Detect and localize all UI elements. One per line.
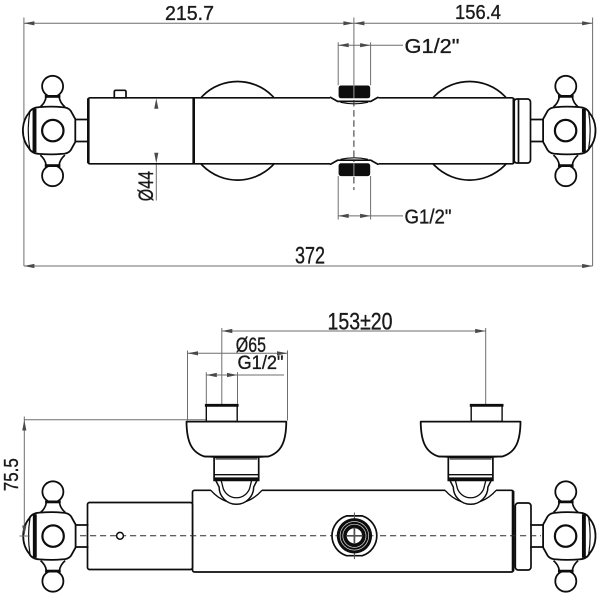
O44 dimension line vertical [155,98,157,200]
right valve circle O65 (top view) [420,82,519,181]
section line [192,99,195,164]
153 dim extension line left [221,328,223,404]
left handle (front view) [23,481,88,591]
dim O65 [188,352,288,354]
main body (top view) [88,98,514,164]
75.5 horizontal extension line [24,419,205,421]
dim 156.4 line [354,22,593,24]
escutcheon center cross [346,528,362,544]
G1/2 nut bottom (black) [339,163,371,176]
thick right edge of front body [512,491,515,571]
dim 215.7 line [24,22,354,24]
dashed centerline front view [80,535,541,537]
svg-text:G1/2": G1/2" [405,35,460,58]
mask body edge under bosses [330,96,379,99]
extension line right (372 / 156.4 dims) [592,18,594,267]
svg-text:75.5: 75.5 [1,458,23,491]
G1/2 (front view) extension lines [205,372,207,404]
thick right body edge [512,99,515,164]
dashed centerline through unions [353,100,355,162]
escutcheon outer ring with flats [332,516,377,556]
left handle (top view) [23,76,88,186]
svg-text:153±20: 153±20 [328,309,393,336]
svg-text:G1/2": G1/2" [405,206,452,229]
thick left body edge [87,99,90,164]
boss over bottom nut [331,160,378,164]
escutcheon crosshair under [335,513,373,560]
right wall union fitting [471,406,502,422]
75.5 dimension vertical line [23,417,25,537]
O65 extension lines [187,351,189,421]
body left section [88,503,193,570]
left outlet assembly [187,422,287,505]
escutcheon black annulus [337,518,372,553]
extension line left (372 / 215.7 dims) [23,18,25,267]
svg-text:G1/2": G1/2" [238,353,284,374]
button on body (top view) [114,90,126,98]
G1/2 nut top (black) [339,86,371,99]
svg-text:372: 372 [295,243,325,270]
dim 153+-20 [222,330,486,332]
svg-text:156.4: 156.4 [455,1,501,24]
svg-text:Ø44: Ø44 [134,171,158,201]
svg-text:215.7: 215.7 [165,2,214,25]
body end cap right (top view) [514,99,531,163]
body end cap right [515,503,531,570]
left wall union fitting [206,406,237,422]
screw on left section [117,532,124,539]
G1/2 bottom extension lines [337,176,339,220]
right handle (top view) [530,76,595,186]
boss under top nut [331,97,378,101]
escutcheon inner white rings [343,524,366,547]
dim G1/2 front [206,374,284,376]
G1/2 top extension lines [337,42,339,85]
dim G1/2 top [338,44,403,46]
left valve circle O65 (top view) [188,82,287,181]
right outlet assembly [421,422,521,505]
dim 372 line [24,265,593,267]
dim G1/2 bottom [338,215,403,217]
center extension line at union (top view) [353,18,355,86]
dim 75.5 arrows [22,420,26,431]
dim O44 arrows [154,98,158,109]
body right section [193,490,514,572]
right handle (front view) [530,481,595,591]
153 dim extension line right [485,328,487,404]
